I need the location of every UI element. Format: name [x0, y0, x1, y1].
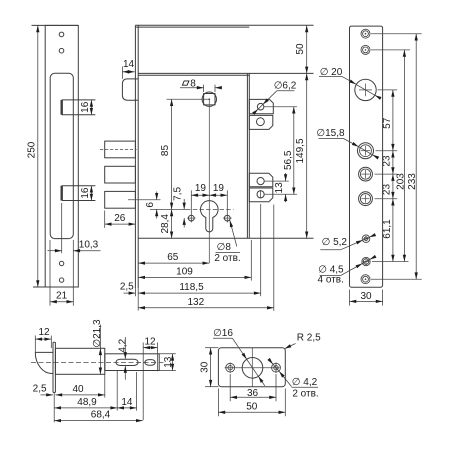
dim 6 upper arrow [156, 192, 158, 200]
svg-text:∅ 5,2: ∅ 5,2 [322, 237, 348, 248]
svg-text:233: 233 [407, 173, 418, 190]
dim 26 line [105, 223, 136, 225]
tab 3 outline [249, 173, 272, 186]
hole 4 extension [375, 198, 398, 200]
dim 21 right extension [72, 240, 74, 306]
label diam8 underline [216, 251, 241, 253]
plate screw hole 2 middle [363, 47, 369, 53]
hole diam 20 [355, 79, 376, 100]
svg-text:2 отв.: 2 отв. [214, 253, 240, 264]
svg-text:23: 23 [381, 184, 392, 196]
hole 15,8 inner [360, 145, 372, 157]
plate horizontal centerline [225, 367, 280, 369]
screw hole right tick [275, 362, 277, 373]
leader 20 through line [356, 85, 375, 96]
latch top line through faceplate [135, 78, 139, 80]
cover plate top inner line [135, 26, 249, 28]
dim 23 lower line [392, 174, 394, 199]
dim 12 left extension [34, 336, 36, 353]
dim 250 line [37, 25, 39, 287]
dim 118,5 line [138, 292, 261, 294]
hole 15,8 cross vertical [365, 146, 367, 155]
plate screw hole 1 outer [361, 29, 370, 38]
svg-text:∅8: ∅8 [217, 242, 232, 253]
dim 50b left extension [217, 389, 219, 417]
svg-text:36: 36 [247, 388, 259, 399]
tab 3 hole [257, 178, 264, 185]
flange left line [52, 342, 54, 392]
faceplate left extension below [134, 288, 136, 296]
dim 109 extension [250, 240, 252, 281]
leader 6,2 upper arrow [263, 91, 277, 105]
latch head bevel arc [35, 352, 53, 373]
dim 7,5 upper arrow [183, 199, 185, 209]
latch stem [105, 354, 159, 371]
dim 13b bottom extension [159, 370, 176, 372]
tab 4 hole cross [260, 190, 262, 199]
svg-text:13: 13 [163, 356, 174, 368]
svg-text:48,9: 48,9 [77, 397, 97, 408]
leader 20 lower arrow [375, 95, 380, 98]
svg-text:14: 14 [123, 59, 135, 70]
stem slot 2 [145, 360, 156, 366]
faceplate bottom edge + extension [33, 286, 78, 288]
flange bottom cap [53, 391, 55, 393]
latch bottom line through faceplate [135, 99, 139, 101]
fixing hole right tick [223, 217, 232, 219]
notch 1 top line [62, 99, 96, 101]
cylinder dashed centerline [186, 208, 234, 210]
dim 56,5 line [293, 107, 295, 195]
dim 61,1 line [392, 199, 394, 262]
dim 50 line [306, 25, 308, 73]
hole diam 15,8 outer [358, 143, 374, 159]
deadbolt 1 [105, 141, 136, 158]
svg-text:4 отв.: 4 отв. [318, 275, 344, 286]
dim 85 line [171, 99, 173, 209]
hole 4,5 cross vertical [365, 258, 367, 265]
hole 3 cross vertical [365, 170, 367, 178]
dim 40 line [55, 394, 104, 396]
label 4,5 underline [320, 275, 341, 277]
dim 14 latch extension [121, 67, 123, 79]
hole 4,5 extension [372, 261, 409, 263]
dim square8 right arrow [215, 87, 222, 89]
body right extension [104, 374, 106, 397]
svg-text:30: 30 [200, 361, 211, 373]
dim 28,4 line [171, 209, 173, 238]
dim 21 left extension [49, 240, 51, 306]
hole 3 cross horizontal [361, 173, 369, 175]
leader R2,5 [285, 344, 296, 349]
dim 132 extension [273, 205, 275, 311]
svg-text:109: 109 [176, 266, 193, 277]
dim 2,5 pointer [41, 394, 54, 396]
strike plate outline [218, 348, 285, 387]
dim 36 line [230, 396, 276, 398]
dim 68,4 line [54, 420, 143, 422]
flange top cap [53, 341, 55, 343]
hole 5,2 cross vertical [365, 236, 367, 242]
dim 2,5 pointer [124, 292, 136, 294]
hole 5,2 inner [364, 237, 368, 241]
svg-text:16: 16 [80, 187, 91, 199]
leader 4,5 through line [362, 260, 369, 264]
dim 203 line [403, 50, 405, 262]
svg-text:250: 250 [26, 141, 37, 158]
screw hole left inner [228, 366, 232, 370]
svg-text:16: 16 [80, 101, 91, 113]
dim 132 line [138, 307, 274, 309]
leader 15,8 lower arrow [372, 155, 377, 158]
dim 21 line [50, 301, 73, 303]
leader 5,2 [341, 240, 363, 250]
deadbolt 3 centerline [128, 199, 161, 201]
bottom hole extension [371, 278, 422, 280]
tab1 hole extension [264, 106, 297, 108]
svg-text:10,3: 10,3 [79, 240, 99, 251]
screw hole bottom 1 [59, 261, 63, 265]
svg-text:6: 6 [145, 202, 156, 208]
plate screw hole 1 center [365, 33, 367, 35]
stem centerline dashed [31, 361, 164, 363]
leader 16 lower arrow [258, 376, 265, 386]
svg-text:85: 85 [160, 145, 171, 157]
hole 3 outer [359, 167, 373, 181]
svg-text:4,2: 4,2 [118, 338, 129, 352]
svg-text:132: 132 [187, 297, 204, 308]
dim 10,3 right arrow [73, 250, 100, 252]
dim 14b line [117, 407, 136, 409]
svg-text:23: 23 [381, 155, 392, 167]
hole 15,8 cross horizontal [361, 150, 370, 152]
leader 15,8 through line [359, 147, 373, 155]
svg-text:19: 19 [213, 183, 225, 194]
dim 21,3 upper line [99, 325, 101, 349]
hole 15,8 extension [376, 150, 398, 152]
screw hole right outer [272, 363, 281, 372]
latch body [55, 348, 104, 374]
dim 16 upper line [90, 100, 92, 115]
label 5,2 underline [320, 249, 341, 251]
screw hole bottom 2 [59, 278, 63, 282]
dim 19 left extension [190, 190, 192, 222]
svg-text:21: 21 [56, 291, 68, 302]
tab 4 outline [249, 188, 272, 202]
case right edge outer [248, 73, 250, 238]
spindle vertical centerline [208, 99, 210, 263]
dim 50b line [218, 411, 285, 413]
leader 6,2 lower arrow [255, 109, 258, 112]
hole 4,5 cross horizontal [363, 261, 370, 263]
leader 4,5 exit arrow [370, 257, 375, 259]
hole 4,5 middle [363, 259, 369, 265]
dim 19 right line [209, 194, 227, 196]
dim 10,3 extension line [61, 203, 63, 253]
dim 13b line [172, 354, 174, 371]
faceplate top edge + extension [32, 24, 79, 26]
leader 5,2 exit arrow [369, 235, 374, 237]
dim 109 line [138, 276, 251, 278]
svg-text:50: 50 [295, 43, 306, 55]
svg-text:∅ 4,2: ∅ 4,2 [292, 377, 318, 388]
notch 2 thick left edge [61, 186, 63, 201]
dim 13 upper arrow [285, 173, 287, 181]
euro cylinder hole [201, 201, 219, 232]
dim 6 lower arrow [156, 209, 158, 218]
svg-text:∅6,2: ∅6,2 [274, 81, 297, 92]
leader 4,2b through line [273, 364, 279, 371]
leader diam8 [230, 220, 237, 246]
leader 4,5 [341, 264, 363, 276]
dim 4,2 upper arrow [124, 337, 126, 359]
leader 20 upper arrow [342, 76, 356, 84]
notch 1 bottom line [62, 114, 96, 116]
cylinder center witness line [150, 208, 186, 210]
flange right line [54, 342, 56, 392]
dim 30b line [210, 348, 212, 387]
dim 13 lower arrow [285, 194, 287, 202]
dim 48,9 extension [116, 371, 118, 411]
svg-text:203: 203 [395, 173, 406, 190]
faceplate outline [45, 25, 78, 287]
leader 16 through line [247, 359, 259, 376]
leader 16 upper arrow [232, 338, 246, 359]
plate screw hole bottom middle [363, 276, 369, 282]
leader 4,2b upper arrow [269, 360, 273, 364]
svg-text:2,5: 2,5 [33, 384, 47, 395]
case top inner line [138, 74, 249, 76]
dim 14b extension [136, 372, 138, 411]
dim 12b line [143, 347, 157, 349]
plate screw hole 2 center [365, 49, 367, 51]
label 6,2 underline [277, 90, 295, 92]
case right edge inner [246, 73, 248, 238]
leader 4,2b lower arrow [279, 371, 291, 386]
dim 21,3 arrows [99, 348, 101, 374]
fixing hole left [188, 215, 194, 221]
faceplate left line [134, 25, 136, 288]
svg-text:∅16: ∅16 [213, 328, 233, 339]
hole 20 cross horizontal [359, 89, 372, 91]
svg-text:28,4: 28,4 [160, 214, 171, 234]
plate screw hole bottom center [365, 278, 367, 280]
spindle hole extension line [167, 98, 210, 100]
notch 1 thick left edge [61, 100, 63, 115]
leader 15,8 upper arrow [344, 139, 359, 147]
svg-text:19: 19 [195, 183, 207, 194]
svg-text:56,5: 56,5 [283, 150, 294, 170]
dim 30 line [350, 300, 383, 302]
hole 4 inner [360, 194, 370, 204]
dim 50b right extension [284, 389, 286, 417]
dim 233 line [415, 34, 417, 280]
hole diam 5,2 outer [362, 235, 370, 243]
label 15,8 underline [319, 138, 344, 140]
dim 36 right extension [275, 374, 277, 401]
svg-text:61,1: 61,1 [382, 219, 393, 239]
dim 30 right extension [382, 290, 384, 306]
hole 4 outer [359, 192, 373, 206]
svg-text:∅21,3: ∅21,3 [92, 319, 103, 348]
screw hole top 2 [59, 48, 64, 53]
svg-text:118,5: 118,5 [179, 282, 204, 293]
dim 13b top extension [159, 353, 176, 355]
fixing hole left tick [187, 217, 196, 219]
dim 12b left extension [142, 343, 144, 421]
label 4,2b underline [292, 386, 319, 388]
tab 4 hole [257, 191, 264, 198]
label 16b underline [213, 337, 232, 339]
spindle center dot [209, 98, 211, 100]
hole 3 inner [360, 169, 370, 179]
square symbol of label 8 [182, 81, 189, 85]
svg-text:2 отв.: 2 отв. [292, 389, 318, 400]
svg-text:40: 40 [72, 384, 84, 395]
dim 30b bottom extension [205, 386, 218, 388]
plate vertical centerline [251, 348, 253, 387]
dim 30 left extension [349, 290, 351, 306]
latch head top line [35, 351, 53, 353]
svg-text:7,5: 7,5 [173, 187, 184, 201]
tab 2 outline [249, 115, 272, 129]
flange extension line [53, 392, 55, 422]
svg-text:13: 13 [274, 182, 285, 194]
deadbolt 2 [105, 166, 136, 183]
hole2 extension [371, 49, 410, 51]
hole diam 16 [242, 358, 263, 379]
raised box (slot) [50, 73, 73, 238]
dim 12 right extension [50, 336, 52, 349]
dim 48,9 line [54, 407, 117, 409]
dim 14 line [122, 71, 134, 73]
square8 right extension [214, 85, 216, 92]
dim 12 line [35, 338, 51, 340]
dim 149,5 line [306, 73, 308, 238]
dim 19 right extension [226, 190, 228, 222]
svg-text:30: 30 [360, 291, 372, 302]
svg-text:R 2,5: R 2,5 [297, 332, 321, 343]
dim 118,5 extension [260, 204, 262, 296]
svg-text:26: 26 [114, 213, 126, 224]
latch bolt [122, 79, 135, 100]
label 20 underline [319, 75, 342, 77]
svg-text:65: 65 [167, 252, 179, 263]
case top edge + extension [138, 72, 313, 74]
svg-text:50: 50 [246, 401, 258, 412]
dim 19 left line [191, 194, 209, 196]
svg-text:12: 12 [144, 337, 156, 348]
faceplate right line [137, 25, 139, 288]
tab4 hole extension [264, 193, 297, 195]
dim 7,5 lower arrow [183, 218, 185, 227]
spindle square hole [204, 94, 215, 105]
tab3 hole extension [264, 180, 289, 182]
notch 2 bottom line [62, 200, 96, 202]
screw hole left tick [229, 362, 231, 373]
dim 26 extension [104, 211, 106, 228]
svg-text:14: 14 [121, 397, 133, 408]
tab 2 hole [257, 118, 265, 126]
hole 4 cross horizontal [361, 198, 369, 200]
faceplate right extension below [137, 288, 139, 311]
hole1 extension [371, 33, 422, 35]
hole 5,2 cross horizontal [363, 238, 369, 240]
dim 12b right extension [157, 343, 159, 372]
fixing hole right [224, 215, 230, 221]
square8 left extension [203, 85, 205, 92]
screw hole top 1 [59, 32, 64, 37]
tab 1 hole 6.2 [257, 103, 264, 110]
notch 2 top line [62, 185, 96, 187]
dim 36 left extension [229, 374, 231, 401]
dim 10,3 left arrow [48, 250, 62, 252]
dim square8 left arrow [180, 87, 204, 89]
dim 57 line [392, 90, 394, 151]
svg-text:∅15,8: ∅15,8 [316, 128, 345, 139]
tab 1 outline [249, 99, 273, 113]
screw hole right inner [274, 366, 278, 370]
cover plate top edge [135, 24, 313, 26]
screw hole left outer [226, 363, 235, 372]
hole 4 cross vertical [365, 195, 367, 203]
svg-text:68,4: 68,4 [91, 410, 111, 421]
stem slot 1 [116, 359, 139, 365]
leader 6,2 through line [258, 104, 263, 109]
dim 65 line [138, 262, 209, 264]
svg-text:57: 57 [382, 117, 393, 129]
dim 30b top extension [205, 347, 218, 349]
case bottom edge + extension [138, 237, 313, 239]
dim 4,2 lower arrow [124, 366, 126, 380]
svg-text:149,5: 149,5 [295, 138, 306, 163]
hole 20 cross vertical [365, 84, 367, 97]
hole 3 extension [375, 173, 398, 175]
dim 23 upper line [392, 151, 394, 174]
spindle hole circle [202, 92, 216, 106]
svg-text:2,5: 2,5 [120, 282, 134, 293]
deadbolt 3 [105, 191, 136, 208]
hole diam 4,5 outer [362, 257, 370, 265]
svg-text:12: 12 [38, 327, 50, 338]
cylinder plate outline [350, 26, 383, 287]
plate screw hole 2 outer [361, 45, 370, 54]
plate screw hole bottom outer [361, 275, 370, 284]
deadbolt 1 centerline [100, 149, 137, 151]
plate screw hole 1 middle [363, 31, 369, 37]
hole 20 extension [378, 89, 398, 91]
leader 5,2 through line [363, 237, 369, 240]
dim 16 lower line [90, 186, 92, 201]
